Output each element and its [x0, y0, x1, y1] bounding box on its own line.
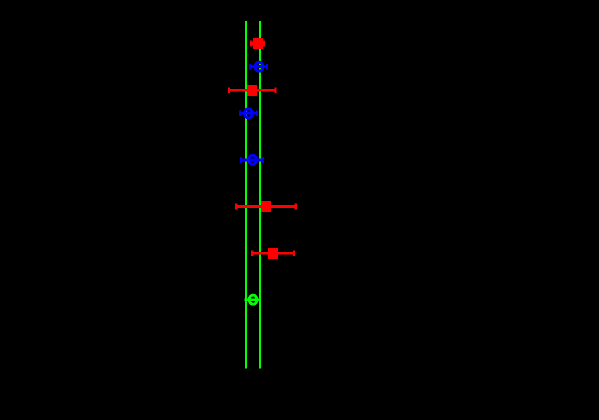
point 7: red square with error bar — [251, 248, 295, 259]
point 6: red square with wide error bar — [235, 201, 297, 212]
point 3: red square with wide error bar — [228, 85, 277, 96]
point 5: blue open circle with error bar — [240, 155, 264, 164]
average band right edge line — [259, 21, 261, 368]
point 2: blue open circle with error bar — [249, 62, 268, 71]
point 8: green open circle (average) with error bar — [245, 295, 260, 304]
point 4: blue open circle with error bar — [239, 109, 258, 118]
point 1: red square with error bar — [250, 38, 265, 49]
average band left edge line — [245, 21, 247, 368]
